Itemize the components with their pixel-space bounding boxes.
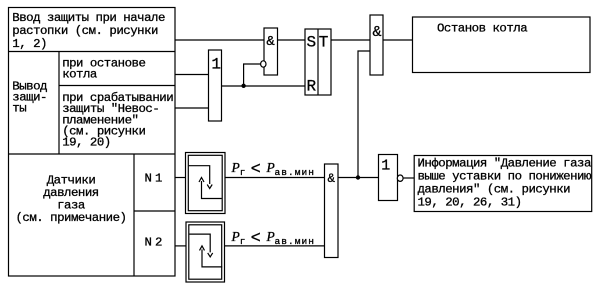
wire: T output to AND gate U3 [331,39,370,41]
svg-text:Останов котла: Останов котла [437,22,528,36]
wire: OR D2 output to info box [404,177,415,179]
svg-text:T: T [319,34,328,52]
wire: top box output to AND gate U1 [175,39,264,41]
node N1 [145,171,163,185]
wire: N2 to comparator B2 [175,245,186,247]
svg-text:(см. примечание): (см. примечание) [16,211,127,225]
svg-text:растопки (см. рисунки: растопки (см. рисунки [12,24,158,38]
AND gate U3 "&" [370,15,383,75]
OR gate D1 "1" [209,50,222,121]
wire: N1 to comparator B1 [175,177,186,179]
svg-text:1: 1 [381,158,390,175]
svg-text:P: P [231,229,240,244]
wire: AND U3 output to Останов котла box [383,39,413,41]
junction node at OR output branch [241,84,245,88]
wire: branch up to inverted input of AND U1 [244,64,261,86]
wire: lower AND branch up into AND U3 [358,51,370,178]
svg-text:г: г [240,236,245,247]
wire: при срабатывании to OR gate D1 [175,107,209,109]
divider N1/N2 [134,210,175,212]
svg-text:&: & [327,172,335,186]
svg-text:S: S [306,34,315,52]
svg-text:1: 1 [211,56,220,74]
svg-text:1, 2): 1, 2) [12,37,47,51]
wire: AND U4 output to OR gate D2 [338,177,379,179]
svg-text:2: 2 [155,235,162,249]
svg-text:19, 20): 19, 20) [62,136,111,150]
wire: OR D1 output to R input (with branch) [222,85,306,87]
box: Информация "Давление газа выше уставки..." [414,156,592,212]
svg-text:ав.мин: ав.мин [275,167,316,178]
svg-text:&: & [373,24,382,41]
comparator B2 (Pг < Pав.мин threshold element) [186,222,225,282]
label: Pг < Pав.мин (upper) [231,159,316,179]
OR gate D2 "1" with inverted output [379,155,398,201]
svg-text:<: < [251,159,261,178]
wire: comparator B1 output to AND U4 [225,177,325,179]
svg-text:N: N [145,171,152,185]
wire: comparator B2 output to AND U4 [225,245,325,247]
svg-text:ав.мин: ав.мин [275,236,316,247]
divider row2/row3 [9,153,176,155]
svg-text:ты: ты [12,102,26,116]
node: Ввод защиты при начале растопки (см. рисунки 1, 2) [12,11,165,51]
node: при срабатывании защиты "Невоспламенение" [62,91,173,150]
svg-text:P: P [266,229,275,244]
label: Pг < Pав.мин (lower) [231,228,316,248]
divider under top cell [9,51,176,53]
svg-text:1: 1 [155,171,162,185]
comparator B1 (Pг < Pав.мин threshold element) [186,153,226,214]
svg-text:R: R [306,78,316,96]
svg-text:г: г [240,167,245,178]
svg-text:P: P [231,160,240,175]
node: Датчики давления газа (см. примечание) [16,174,127,226]
node: при останове котла [62,57,145,82]
divider Датчики column [133,154,135,276]
svg-text:выше уставки по понижению: выше уставки по понижению [418,169,592,183]
SR flip-flop U2 [305,29,331,96]
svg-text:P: P [266,160,275,175]
node: Вывод защиты [12,80,47,116]
inverter circle at OR D2 output [397,175,403,181]
AND gate U1 "&" with inverted input [264,28,278,75]
AND gate U4 "&" (pressure sensors) [325,164,339,258]
svg-text:давления" (см. рисунки: давления" (см. рисунки [418,182,571,196]
wire: AND U1 output to S input [278,39,306,41]
svg-text:Информация "Давление газа: Информация "Давление газа [418,156,592,170]
junction node at AND U4 output [356,175,360,179]
table outer box [9,8,176,277]
divider cellA/cellB [59,85,175,87]
divider Вывод защиты column [58,52,60,155]
wire: при останове котла to OR gate D1 [175,74,209,76]
svg-text:Ввод защиты при начале: Ввод защиты при начале [12,11,165,25]
svg-text:N: N [145,235,152,249]
svg-text:&: & [266,34,275,50]
svg-text:котла: котла [62,68,98,82]
svg-text:<: < [251,228,261,247]
inverter circle at AND U1 input [261,61,266,67]
box: Останов котла [413,17,591,73]
svg-text:19, 20, 26, 31): 19, 20, 26, 31) [418,195,522,209]
node N2 [145,235,163,249]
